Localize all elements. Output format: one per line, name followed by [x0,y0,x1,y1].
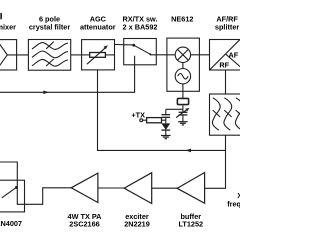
AF/RF splitter box [210,40,247,71]
wire capacitor to diode [165,117,167,123]
svg-text:crystal filter: crystal filter [29,22,71,31]
wire buffer to exciter [152,187,177,189]
mixer box U1 [0,40,17,70]
wire resistor junction [162,119,166,121]
RF filter wave 3 slash [236,110,243,117]
svg-text:attenuator: attenuator [80,22,116,31]
AGC attenuator box [82,40,115,70]
svg-text:RF: RF [219,60,229,69]
RF filter wave 1 [212,98,220,130]
wire filter to AGC [71,54,82,56]
buffer triangle LT1252 [177,173,205,204]
svg-text:NE612: NE612 [171,15,193,24]
oscillator sine [178,74,188,79]
RF bandpass filter box [210,94,247,135]
wire switch to NE612 [150,54,175,56]
AGC feed wire [98,70,226,150]
crystal filter box FL1 [28,40,70,71]
variable capacitor plates [179,111,188,113]
filter wave 3 [32,59,68,66]
wire PA to antenna switch [0,162,71,204]
wire mixer to osc [182,63,184,69]
switch contact dot [132,44,135,47]
antenna switch box [0,180,25,212]
mixer X [178,49,189,60]
wire NE612 to splitter [191,54,210,56]
RX/TX switch box [124,39,157,65]
RF filter wave 2 slash [224,110,231,117]
switch arm [134,45,150,54]
filter wave 1 [32,43,68,50]
svg-text:1N4007: 1N4007 [0,219,22,228]
AGC wire in [82,54,90,56]
PA triangle 2SC2166 [71,173,98,202]
wire node down to capacitor [165,109,167,114]
NE612 box [167,38,200,91]
wire crystal down [182,106,184,113]
svg-text:mixer: mixer [0,22,16,31]
svg-text:2N2219: 2N2219 [124,220,150,229]
filter wave 2 [32,51,68,58]
label fragment line1 top-left [0,13,1,19]
node wire horizontal [166,108,183,110]
svg-text:splitter: splitter [215,22,239,31]
AGC variable resistor [90,53,106,58]
filter wave 3 slash [46,59,54,66]
mixer amp triangle [0,41,7,69]
wire RF filter down to buffer [205,135,226,188]
wire AGC to RXTX switch [115,44,134,46]
TX line arrow right [43,91,48,95]
crystal X1 [177,98,188,104]
svg-text:+TX: +TX [131,111,145,120]
RF filter wave 1 slash [213,110,220,117]
antenna switch arm [2,188,16,198]
wire terminal to resistor [143,119,147,121]
RF filter wave 3 [235,98,243,130]
AGC feed arrow left [186,149,192,153]
capacitor C [162,114,171,116]
splitter diagonal main [210,39,241,70]
filter wave 1 slash [46,42,54,49]
svg-text:freq: freq [227,200,240,209]
diode D1 [161,123,170,129]
variable capacitor arrow [176,109,188,118]
+TX terminal [140,119,143,122]
svg-text:AF: AF [229,51,239,60]
wire diode to ground [165,130,167,135]
NE612 mixer circle [175,47,190,62]
RF filter wave 2 [224,98,232,130]
ground left [161,135,171,137]
wire exciter to PA [98,187,124,189]
wire splitter to RF filter [225,70,227,94]
wire osc down to crystal [182,84,184,98]
NE612 oscillator circle [175,69,190,84]
ground right [178,121,187,123]
exciter triangle 2N2219 [124,173,152,204]
svg-text:2 x BA592: 2 x BA592 [123,22,158,31]
wire varcap to ground [182,115,184,121]
AGC arrow [87,47,106,64]
TX drop wire from switch [0,56,135,93]
svg-text:LT1252: LT1252 [178,220,203,229]
antenna switch contact dot [15,186,18,189]
AGC wire out internal [105,54,114,56]
wire mixer to crystal filter [7,54,28,56]
splitter diagonal branch [226,54,244,69]
resistor R1 [147,118,162,123]
svg-text:2SC2166: 2SC2166 [69,220,99,229]
